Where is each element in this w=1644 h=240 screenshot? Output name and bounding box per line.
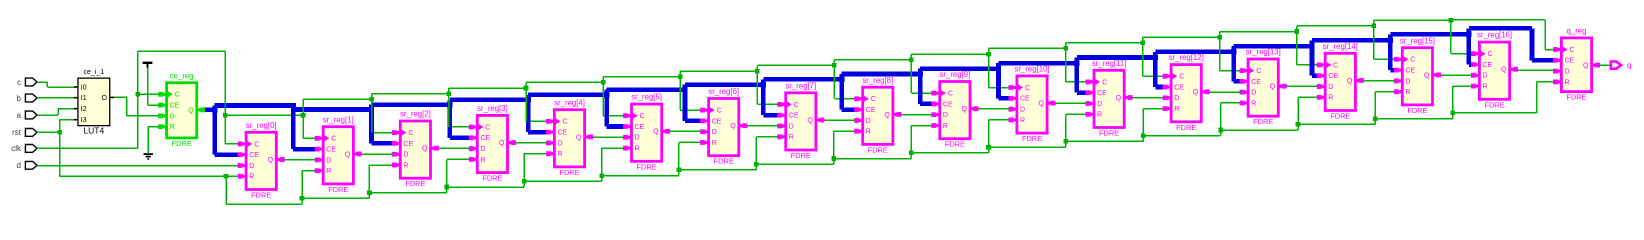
svg-text:D: D [1020, 107, 1025, 114]
flip-flop sr_reg[8] (FDRE) [854, 76, 901, 155]
svg-text:R: R [789, 134, 794, 141]
svg-text:D: D [1405, 78, 1410, 85]
wire blue drop to sr_reg[6] CE [682, 85, 701, 124]
wire clk feed to sr_reg[3] C [447, 91, 470, 127]
wire sr_reg[8] Q to sr_reg[9] D [901, 114, 932, 116]
wire clk feed to sr_reg[2] C [370, 97, 393, 133]
wire clk drop vertical to sr_reg[6] C [679, 71, 681, 110]
svg-text:D: D [712, 129, 717, 136]
wire clk drop vertical to sr_reg[13] C [1219, 32, 1221, 71]
wire clk drop vertical to sr_reg[8] C [834, 60, 836, 99]
wire blue rail segment 1 [293, 107, 371, 112]
svg-text:R: R [249, 174, 254, 181]
wire clk feed to sr_reg[16] C [1449, 18, 1472, 55]
flip-flop ce_reg (FDRE) [158, 71, 205, 148]
wire blue drop to sr_reg[15] CE [1388, 34, 1395, 72]
wire blue rail segment 15 [1390, 32, 1468, 37]
svg-text:R: R [403, 162, 408, 169]
wire blue drop to sr_reg[7] CE [761, 79, 779, 117]
wire clk drop vertical to sr_reg[9] C [911, 54, 913, 93]
svg-text:C: C [175, 92, 180, 99]
wire blue rail segment 6 [685, 82, 763, 87]
wire clk rail segment 7 [757, 65, 834, 67]
wire clk rail segment 13 [1220, 31, 1297, 33]
svg-text:C: C [485, 124, 490, 131]
wire blue rail segment 13 [1234, 44, 1312, 49]
wire blue drop to sr_reg[13] CE [1231, 46, 1241, 84]
svg-text:CE: CE [866, 107, 876, 114]
svg-text:Q: Q [1116, 95, 1122, 102]
wire sr_reg[3] Q to sr_reg[4] D [516, 142, 547, 144]
wire clk feed to sr_reg[1] C [301, 113, 316, 139]
svg-text:Q: Q [576, 134, 582, 141]
svg-text:R: R [170, 124, 175, 131]
wire sr_reg[2] Q to sr_reg[3] D [439, 148, 470, 150]
flip-flop sr_reg[6] (FDRE) [700, 87, 747, 166]
svg-text:CE: CE [1328, 73, 1338, 80]
wire blue rail segment 5 [607, 87, 685, 92]
svg-text:CE: CE [1251, 79, 1261, 86]
wire clk rail segment 15 [1374, 19, 1451, 21]
svg-text:FDRE: FDRE [482, 174, 502, 183]
wire clk rail segment 5 [603, 76, 680, 78]
wire R riser to sr_reg[9] R [909, 125, 933, 159]
svg-text:FDRE: FDRE [1566, 93, 1586, 102]
wire R riser to sr_reg[10] R [986, 119, 1009, 153]
svg-text:FDRE: FDRE [1022, 134, 1042, 143]
flip-flop sr_reg[5] (FDRE) [623, 93, 670, 172]
svg-text:sr_reg[8]: sr_reg[8] [862, 76, 893, 85]
wire R rail segment 4 [524, 181, 601, 183]
wire clk drop vertical to sr_reg[0] C [224, 51, 226, 144]
wire R rail segment 9 [911, 152, 988, 154]
wire blue drop to sr_reg[11] CE [1074, 58, 1086, 95]
svg-text:CE: CE [249, 152, 259, 159]
svg-text:sr_reg[12]: sr_reg[12] [1169, 53, 1204, 62]
svg-text:FDRE: FDRE [714, 157, 734, 166]
wire clk rail segment 8 [834, 59, 911, 61]
svg-text:C: C [563, 119, 568, 126]
wire b to I1 [37, 97, 74, 99]
svg-text:sr_reg[5]: sr_reg[5] [631, 93, 662, 102]
wire clk rail segment 4 [526, 82, 603, 84]
input port clk [11, 144, 37, 153]
flip-flop sr_reg[12] (FDRE) [1163, 53, 1210, 132]
svg-text:C: C [948, 91, 953, 98]
svg-text:D: D [326, 157, 331, 164]
wire clk rail segment 6 [680, 70, 757, 72]
svg-text:I3: I3 [81, 117, 87, 124]
svg-text:D: D [1174, 95, 1179, 102]
wire clk drop vertical to sr_reg[5] C [602, 77, 604, 116]
wire clk rail segment 9 [911, 53, 988, 55]
wire clk from port [37, 148, 138, 150]
svg-text:D: D [558, 140, 563, 147]
svg-text:D: D [943, 112, 948, 119]
flip-flop sr_reg[4] (FDRE) [546, 98, 593, 177]
wire blue drop to sr_reg[5] CE [604, 90, 624, 129]
wire clk feed to sr_reg[10] C [986, 52, 1009, 88]
svg-text:C: C [1102, 79, 1107, 86]
input port b [17, 94, 38, 103]
wire blue rail segment 8 [842, 72, 920, 77]
svg-text:sr_reg[6]: sr_reg[6] [708, 87, 739, 96]
power VCC symbol [143, 62, 153, 68]
wire R net drop from rst run [224, 174, 229, 204]
svg-text:Q: Q [1270, 84, 1276, 91]
wire clk rail tail to q_reg C [1451, 19, 1554, 50]
wire blue drop to sr_reg[14] CE [1309, 40, 1318, 78]
wire R rail segment 5 [602, 175, 679, 177]
svg-text:FDRE: FDRE [1330, 112, 1350, 121]
svg-text:Q: Q [1501, 67, 1507, 74]
wire a to I2 [37, 108, 74, 116]
svg-text:sr_reg[11]: sr_reg[11] [1092, 59, 1127, 68]
wire blue rail segment 3 [450, 97, 528, 102]
wire R rail segment 12 [1143, 135, 1220, 137]
svg-text:FDRE: FDRE [1407, 106, 1427, 115]
svg-text:R: R [1565, 79, 1570, 86]
wire R rail segment 13 [1221, 129, 1298, 131]
svg-text:R: R [635, 146, 640, 153]
wire R riser to sr_reg[5] R [599, 147, 624, 181]
flip-flop sr_reg[0] (FDRE) [238, 121, 285, 200]
wire clk drop vertical to sr_reg[10] C [988, 48, 990, 87]
wire blue rail tail to q_reg CE [1469, 26, 1554, 62]
wire blue drop to sr_reg[12] CE [1153, 52, 1164, 89]
svg-text:C: C [1570, 47, 1575, 54]
svg-text:D: D [480, 146, 485, 153]
wire R riser to sr_reg[11] R [1064, 114, 1087, 148]
svg-text:a: a [17, 111, 22, 120]
wire blue rail segment 0 [215, 103, 293, 108]
svg-text:Q: Q [961, 106, 967, 113]
svg-text:d: d [17, 161, 21, 170]
input port c [17, 78, 37, 87]
flip-flop sr_reg[7] (FDRE) [777, 81, 824, 160]
svg-text:D: D [635, 135, 640, 142]
svg-text:sr_reg[0]: sr_reg[0] [246, 121, 277, 130]
svg-text:R: R [1405, 89, 1410, 96]
wire blue rail segment 2 [372, 102, 450, 107]
svg-text:CE: CE [480, 135, 490, 142]
svg-text:C: C [1333, 62, 1338, 69]
svg-text:Q: Q [1193, 89, 1199, 96]
wire R rail segment 6 [679, 169, 756, 171]
wire R rail segment 15 [1375, 118, 1452, 120]
svg-text:FDRE: FDRE [945, 140, 965, 149]
wire clk drop vertical to sr_reg[15] C [1373, 20, 1375, 59]
wire R riser to sr_reg[7] R [754, 136, 778, 170]
svg-text:FDRE: FDRE [1253, 117, 1273, 126]
wire R rail segment 14 [1298, 124, 1375, 126]
svg-text:FDRE: FDRE [559, 168, 579, 177]
svg-text:R: R [1097, 112, 1102, 119]
svg-text:Q: Q [1583, 63, 1589, 70]
svg-text:Q: Q [884, 112, 890, 119]
svg-text:R: R [1174, 106, 1179, 113]
svg-text:sr_reg[15]: sr_reg[15] [1400, 36, 1435, 45]
svg-text:FDRE: FDRE [1484, 100, 1504, 109]
flip-flop q_reg (FDRE) [1553, 27, 1600, 102]
svg-text:FDRE: FDRE [868, 145, 888, 154]
wire blue drop to sr_reg[8] CE [839, 74, 855, 112]
svg-text:C: C [871, 96, 876, 103]
flip-flop sr_reg[9] (FDRE) [931, 70, 978, 149]
svg-text:sr_reg[13]: sr_reg[13] [1246, 48, 1281, 57]
svg-text:clk: clk [11, 144, 22, 153]
svg-text:C: C [1025, 85, 1030, 92]
svg-text:Q: Q [807, 117, 813, 124]
wire clk drop vertical to sr_reg[4] C [525, 82, 527, 121]
wire blue drop to sr_reg[16] CE [1466, 28, 1472, 66]
svg-text:FDRE: FDRE [1099, 129, 1119, 138]
svg-text:D: D [1483, 73, 1488, 80]
wire blue rail segment 11 [1077, 55, 1155, 60]
svg-text:FDRE: FDRE [1176, 123, 1196, 132]
wire blue rail segment 7 [763, 77, 841, 82]
flip-flop sr_reg[13] (FDRE) [1240, 48, 1287, 127]
LUT4 ce_i_1 [74, 69, 114, 136]
svg-text:C: C [1488, 51, 1493, 58]
svg-text:C: C [254, 141, 259, 148]
input port d [17, 161, 38, 170]
wire R riser to sr_reg[15] R [1373, 91, 1395, 124]
svg-text:CE: CE [326, 147, 336, 154]
wire d to sr_reg[0] D [37, 165, 239, 167]
wire clk drop vertical to sr_reg[3] C [448, 88, 450, 127]
wire blue drop to sr_reg[3] CE [447, 100, 470, 140]
flip-flop sr_reg[2] (FDRE) [392, 110, 439, 189]
svg-text:sr_reg[10]: sr_reg[10] [1014, 65, 1049, 74]
wire blue rail segment 12 [1155, 50, 1233, 55]
wire VCC to ce_reg CE [147, 68, 159, 106]
svg-text:R: R [1328, 95, 1333, 102]
wire sr_reg[5] Q to sr_reg[6] D [670, 131, 701, 133]
svg-text:CE: CE [1405, 68, 1415, 75]
svg-text:FDRE: FDRE [172, 139, 192, 148]
wire rst run to sr_reg[0] R [60, 176, 239, 178]
wire R riser to sr_reg[2] R [367, 164, 393, 198]
wire sr_reg[0] Q to sr_reg[1] D [285, 159, 316, 161]
wire clk drop vertical to sr_reg[16] C [1450, 20, 1452, 54]
input port rst [12, 128, 37, 137]
flip-flop sr_reg[14] (FDRE) [1317, 42, 1364, 121]
wire sr_reg[4] Q to sr_reg[5] D [593, 136, 624, 138]
svg-text:Q: Q [1039, 101, 1045, 108]
svg-text:CE: CE [1020, 96, 1030, 103]
wire blue drop to sr_reg[10] CE [996, 63, 1010, 101]
wire R rail segment 10 [989, 146, 1066, 148]
wire clk drop vertical to sr_reg[12] C [1142, 37, 1144, 76]
flip-flop sr_reg[1] (FDRE) [315, 115, 362, 194]
svg-text:sr_reg[16]: sr_reg[16] [1477, 31, 1512, 40]
wire R riser to sr_reg[8] R [831, 130, 855, 164]
wire sr_reg[16] Q to q_reg D [1518, 69, 1554, 71]
wire blue drop to sr_reg[2] CE [369, 105, 393, 146]
wire clk drop vertical to sr_reg[1] C [302, 99, 304, 138]
wire clk feed to sr_reg[9] C [909, 57, 932, 93]
svg-text:CE: CE [403, 141, 413, 148]
svg-text:R: R [326, 168, 331, 175]
wire sr_reg[7] Q to sr_reg[8] D [824, 119, 855, 121]
wire clk drop vertical to sr_reg[11] C [1065, 43, 1067, 82]
flip-flop sr_reg[3] (FDRE) [469, 104, 516, 183]
svg-text:LUT4: LUT4 [83, 126, 104, 136]
svg-text:CE: CE [1483, 62, 1493, 69]
svg-text:FDRE: FDRE [251, 191, 271, 200]
wire blue rail segment 14 [1312, 38, 1390, 43]
svg-text:R: R [1483, 84, 1488, 91]
svg-text:ce_reg: ce_reg [170, 71, 194, 80]
svg-text:C: C [1256, 68, 1261, 75]
wire R rail segment 11 [1066, 141, 1143, 143]
wire clk feed to sr_reg[5] C [601, 80, 624, 116]
svg-text:CE: CE [1097, 90, 1107, 97]
wire clk feed to sr_reg[11] C [1063, 46, 1086, 83]
svg-text:q_reg: q_reg [1567, 27, 1587, 36]
wire sr_reg[1] Q to sr_reg[2] D [362, 153, 393, 155]
output port q [1611, 61, 1632, 70]
svg-text:ce_i_1: ce_i_1 [83, 69, 104, 76]
wire q_reg Q to port q [1600, 64, 1610, 66]
svg-text:FDRE: FDRE [405, 179, 425, 188]
svg-text:O: O [101, 95, 107, 102]
svg-text:R: R [712, 140, 717, 147]
wire blue drop to sr_reg[0] CE [212, 106, 239, 158]
wire sr_reg[10] Q to sr_reg[11] D [1056, 103, 1087, 105]
wire clk rail segment 1 [303, 99, 372, 101]
wire rst to I3 junction [37, 119, 74, 176]
svg-text:FDRE: FDRE [791, 151, 811, 160]
wire R rail segment 0 [226, 203, 302, 205]
wire R riser to sr_reg[13] R [1218, 102, 1240, 135]
svg-text:D: D [249, 163, 254, 170]
wire blue rail segment 9 [920, 66, 998, 71]
wire R riser to sr_reg[3] R [445, 159, 470, 193]
svg-text:D: D [1328, 84, 1333, 91]
flip-flop sr_reg[15] (FDRE) [1394, 36, 1441, 115]
wire sr_reg[14] Q to sr_reg[15] D [1364, 80, 1395, 82]
wire sr_reg[15] Q to sr_reg[16] D [1441, 74, 1472, 76]
wire clk rail segment 0 [225, 114, 303, 116]
svg-text:R: R [1251, 100, 1256, 107]
wire clk rail segment 14 [1297, 25, 1374, 27]
wire clk feed to sr_reg[8] C [832, 63, 855, 99]
svg-text:CE: CE [1174, 84, 1184, 91]
svg-text:Q: Q [422, 146, 428, 153]
svg-text:I2: I2 [81, 106, 87, 113]
svg-text:b: b [17, 94, 22, 103]
svg-text:R: R [480, 157, 485, 164]
wire sr_reg[12] Q to sr_reg[13] D [1210, 91, 1241, 93]
svg-text:I0: I0 [81, 84, 87, 91]
wire clk rail segment 3 [449, 87, 526, 89]
svg-text:q: q [1627, 61, 1631, 70]
svg-text:I1: I1 [81, 95, 87, 102]
wire blue drop to sr_reg[9] CE [917, 69, 932, 107]
wire sr_reg[9] Q to sr_reg[10] D [978, 108, 1009, 110]
wire R riser to sr_reg[1] R [300, 170, 316, 204]
wire c to I0 [37, 81, 74, 88]
svg-text:CE: CE [712, 118, 722, 125]
flip-flop sr_reg[16] (FDRE) [1471, 31, 1518, 110]
wire R rail segment 8 [834, 158, 911, 160]
svg-text:D: D [403, 152, 408, 159]
svg-text:C: C [331, 136, 336, 143]
svg-text:sr_reg[2]: sr_reg[2] [400, 110, 431, 119]
svg-text:rst: rst [12, 128, 22, 137]
wire R rail segment 3 [447, 186, 524, 188]
svg-text:D: D [1251, 90, 1256, 97]
wire clk rail segment 11 [1066, 42, 1143, 44]
wire sr_reg[11] Q to sr_reg[12] D [1133, 97, 1164, 99]
wire clk drop vertical to sr_reg[14] C [1296, 26, 1298, 65]
wire clk feed to sr_reg[14] C [1295, 29, 1318, 65]
svg-text:Q: Q [1347, 78, 1353, 85]
input port a [17, 111, 38, 120]
flip-flop sr_reg[11] (FDRE) [1086, 59, 1133, 138]
svg-text:sr_reg[3]: sr_reg[3] [477, 104, 508, 113]
svg-text:CE: CE [943, 101, 953, 108]
wire clk feed to sr_reg[12] C [1140, 41, 1163, 77]
wire clk rail segment 10 [989, 48, 1066, 50]
wire blue rail segment 10 [999, 61, 1077, 66]
wire sr_reg[6] Q to sr_reg[7] D [747, 125, 778, 127]
wire blue rail segment 4 [528, 92, 606, 97]
wire LUT O to ce_reg D [114, 97, 159, 117]
wire R rail segment 2 [370, 192, 447, 194]
svg-text:Q: Q [345, 151, 351, 158]
svg-text:CE: CE [635, 124, 645, 131]
svg-text:FDRE: FDRE [328, 185, 348, 194]
svg-text:D: D [866, 118, 871, 125]
svg-text:Q: Q [653, 129, 659, 136]
wire R riser to sr_reg[6] R [677, 142, 702, 176]
wire clk rail segment 2 [372, 93, 449, 95]
svg-text:CE: CE [170, 103, 180, 110]
svg-text:CE: CE [1565, 58, 1575, 65]
wire clk feed to sr_reg[15] C [1372, 24, 1395, 61]
wire R riser to sr_reg[4] R [522, 153, 547, 187]
svg-text:R: R [866, 129, 871, 136]
wire clk riser [136, 50, 226, 148]
svg-text:CE: CE [558, 130, 568, 137]
svg-text:sr_reg[7]: sr_reg[7] [785, 81, 816, 90]
svg-text:Q: Q [499, 140, 505, 147]
svg-text:D: D [170, 113, 175, 120]
wire R rail tail to q_reg R [1453, 81, 1554, 114]
svg-text:Q: Q [268, 157, 274, 164]
wire blue ce_reg Q feed [205, 108, 215, 113]
wire clk drop to sr_reg[0] C feed [223, 113, 239, 145]
wire clk feed to sr_reg[13] C [1217, 35, 1240, 72]
svg-text:R: R [1020, 117, 1025, 124]
flip-flop sr_reg[10] (FDRE) [1009, 65, 1056, 144]
wire blue drop to sr_reg[1] CE [290, 103, 315, 152]
svg-text:D: D [1565, 69, 1570, 76]
svg-text:C: C [640, 113, 645, 120]
svg-text:CE: CE [789, 113, 799, 120]
wire R riser to sr_reg[14] R [1296, 97, 1318, 130]
wire blue drop to sr_reg[4] CE [526, 95, 548, 135]
wire R riser to sr_reg[12] R [1141, 108, 1164, 142]
svg-text:Q: Q [188, 107, 194, 114]
svg-text:C: C [408, 130, 413, 137]
svg-text:D: D [789, 123, 794, 130]
svg-text:c: c [17, 78, 21, 87]
wire clk drop vertical to sr_reg[7] C [757, 65, 759, 104]
